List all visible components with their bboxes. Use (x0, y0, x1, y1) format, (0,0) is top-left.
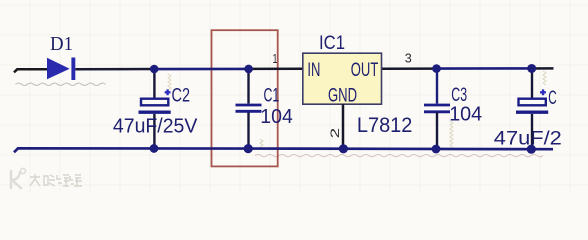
squiggle under D1 wire (16, 83, 106, 85)
op-amp / regulator IC1 box (303, 53, 382, 104)
node: top C2 junction (150, 65, 159, 74)
watermark logo (11, 168, 26, 189)
vertical zigzag near C2 pin (168, 74, 171, 90)
wire: top rail left segment (to diode) (14, 69, 48, 72)
node: bottom C3 junction (432, 145, 441, 154)
pin wire top (153, 69, 155, 99)
svg-text:104: 104 (260, 105, 293, 128)
pin wire bottom (153, 114, 155, 149)
plus sign (165, 89, 171, 95)
node: top C3 junction (432, 64, 441, 73)
svg-text:IN: IN (307, 59, 320, 81)
capacitor C1 (ceramic) (236, 69, 262, 149)
wire: bottom rail (14, 148, 553, 152)
svg-text:GND: GND (328, 85, 357, 107)
wire: GND pin down (342, 104, 345, 149)
node: bottom C2 junction (150, 144, 159, 153)
wire: C2 node to C1 node (154, 68, 249, 71)
bottom plate (139, 110, 171, 113)
svg-text:L7812: L7812 (357, 113, 413, 137)
vertical zigzag near C3 pin (450, 121, 453, 147)
svg-text:47uF/25V: 47uF/25V (113, 114, 198, 137)
svg-text:C2: C2 (172, 85, 191, 107)
watermark text (30, 174, 82, 186)
svg-text:104: 104 (449, 103, 482, 126)
svg-text:C: C (548, 87, 557, 109)
red highlight rectangle (212, 30, 278, 166)
wire: C4 node to right end (532, 67, 554, 70)
node: top C1 junction (244, 65, 253, 74)
capacitor C2 (electrolytic) (139, 69, 171, 149)
svg-text:D1: D1 (50, 33, 73, 55)
svg-text:3: 3 (405, 52, 412, 66)
svg-text:1: 1 (273, 52, 278, 66)
node: bottom GND junction (339, 144, 348, 153)
svg-text:C1: C1 (264, 85, 280, 107)
svg-text:IC1: IC1 (319, 32, 345, 54)
wire: IC pin 3 to C3 node (382, 67, 437, 70)
svg-text:OUT: OUT (351, 59, 379, 81)
wire: diode to C2 node (75, 68, 154, 71)
vertical zigzag near C1 bottom pin (260, 139, 263, 147)
wire: C1 node to IC pin 1 (249, 68, 303, 71)
node: bottom C1 junction (244, 144, 253, 153)
diode D1 (48, 58, 76, 81)
squiggle under bottom rail right (255, 154, 543, 156)
capacitor C3 (ceramic) (424, 69, 450, 150)
capacitor C4 (electrolytic, clipped at right) (516, 69, 548, 150)
node: top C4 junction (527, 64, 536, 73)
wire: C3 node to C4 node (437, 67, 532, 70)
vertical zigzag near C4 pin (543, 71, 546, 85)
svg-text:2: 2 (328, 127, 342, 138)
node: bottom C4 junction (527, 145, 536, 154)
top plate (hollow) (141, 99, 168, 106)
